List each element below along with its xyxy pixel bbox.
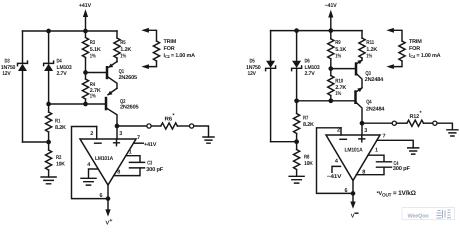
- wire node to R6: [117, 125, 147, 127]
- TRIM adjustment symbol right: [386, 28, 394, 33]
- capacitor C3 300 pF: [130, 162, 145, 168]
- wire node to R12: [362, 122, 392, 124]
- node junction bus/D4: [46, 29, 51, 34]
- ground right of R6: [203, 137, 214, 143]
- svg-text:3: 3: [119, 131, 122, 137]
- pin 3 lead: [361, 123, 363, 135]
- diode D5 zener: [266, 61, 276, 71]
- node junction R9/R10/Q3 base: [328, 66, 333, 71]
- svg-text:R10: R10: [335, 79, 343, 85]
- ground at pin 7: [408, 148, 419, 154]
- svg-text:1N750: 1N750: [246, 65, 261, 71]
- svg-text:R8: R8: [304, 155, 309, 161]
- pin 2 lead: [340, 128, 342, 135]
- wire terminal to ground: [194, 126, 209, 137]
- node junction D4/R1: [46, 102, 51, 107]
- pin 7 lead to ground: [377, 140, 413, 148]
- wire output arrow to V-: [352, 193, 354, 202]
- resistor R5: [116, 31, 118, 38]
- svg-text:D5: D5: [250, 58, 255, 64]
- svg-text:R6: R6: [165, 117, 173, 123]
- svg-text:2.7V: 2.7V: [305, 71, 316, 77]
- wire top supply bus: [23, 30, 118, 32]
- svg-text:1%: 1%: [120, 54, 126, 60]
- svg-text:+41V: +41V: [144, 142, 157, 148]
- svg-text:V: V: [351, 213, 355, 219]
- svg-text:FOR: FOR: [164, 46, 175, 52]
- svg-text:TRIM: TRIM: [164, 39, 177, 45]
- ground at pin 4: [81, 178, 96, 185]
- svg-text:2: 2: [90, 131, 93, 137]
- resistor R11: [361, 31, 363, 38]
- wire D4 bottom lead: [48, 71, 50, 104]
- svg-text:2.7V: 2.7V: [57, 71, 68, 77]
- svg-text:R3: R3: [90, 40, 95, 46]
- node junction bus/R9: [328, 28, 333, 33]
- ground below R2: [41, 177, 56, 184]
- pin 3 lead: [116, 126, 118, 139]
- pin 7 lead to +41V: [134, 142, 144, 144]
- node junction bus/D6: [294, 28, 299, 33]
- svg-text:D4: D4: [57, 58, 63, 64]
- diode D6 zener LM103: [292, 61, 302, 71]
- node junction R7/R8/D5: [294, 139, 299, 144]
- svg-text:8.2K: 8.2K: [55, 125, 66, 131]
- watermark box: [402, 208, 455, 220]
- transistor Q2 2N2605: [108, 88, 117, 94]
- node open terminal right of R12: [433, 121, 437, 125]
- svg-text:6: 6: [100, 193, 103, 199]
- svg-text:R1: R1: [55, 118, 60, 124]
- op-amp U2 LM101A: [326, 135, 380, 181]
- pin 2 lead: [96, 127, 98, 140]
- node junction R4 bottom: [83, 102, 88, 107]
- wire D5 to R7/R8 junction: [271, 141, 297, 143]
- wire D3 bottom lead down to R1/R2 junction row: [22, 71, 24, 142]
- wire D3 to R1/R2 junction: [23, 141, 49, 143]
- wire D5 bottom lead down to R7/R8 junction row: [270, 68, 272, 141]
- svg-text:5.1K: 5.1K: [90, 47, 101, 53]
- svg-text:6: 6: [345, 188, 348, 194]
- op-amp plus sign pin3: [359, 136, 365, 142]
- svg-text:2N2484: 2N2484: [365, 77, 385, 83]
- svg-text:2N2605: 2N2605: [120, 104, 139, 110]
- wire feedback loop output to pin 2: [72, 127, 109, 199]
- svg-text:3: 3: [364, 128, 367, 134]
- node junction R3/R4/Q1 base: [83, 70, 88, 75]
- node junction output/feedback: [351, 191, 356, 196]
- svg-text:−41V: −41V: [325, 3, 338, 9]
- svg-text:WeeQoo: WeeQoo: [408, 213, 430, 219]
- svg-text:2N2484: 2N2484: [366, 107, 386, 113]
- diode D4 zener LM103: [44, 61, 54, 71]
- resistor R10: [330, 69, 332, 76]
- svg-text:Q4: Q4: [366, 100, 372, 106]
- svg-text:C3: C3: [147, 160, 152, 166]
- op-amp plus sign pin3: [114, 140, 120, 146]
- svg-text:LM101A: LM101A: [345, 148, 363, 154]
- svg-text:D3: D3: [5, 58, 10, 64]
- svg-text:1%: 1%: [90, 54, 96, 60]
- node junction D6/R7: [294, 98, 299, 103]
- transistor Q4 2N2484: [356, 88, 363, 93]
- wire D4 top lead: [48, 31, 50, 63]
- TRIM adjustment symbol left: [141, 28, 149, 33]
- op-amp minus sign pin2: [340, 138, 346, 140]
- resistor R4: [85, 73, 87, 80]
- wire feedback loop output to pin 2: [317, 128, 354, 194]
- svg-text:IC2 = 1.00 mA: IC2 = 1.00 mA: [164, 53, 196, 59]
- svg-text:1.2K: 1.2K: [120, 47, 131, 53]
- transistor Q3 2N2484: [331, 68, 355, 70]
- svg-text:8: 8: [117, 170, 120, 176]
- capacitor C4 300 pF: [377, 162, 392, 167]
- pin 6 output lead: [107, 185, 109, 199]
- pin 1 lead to C4: [368, 155, 384, 161]
- resistor R6*: [161, 123, 178, 129]
- svg-text:LM101A: LM101A: [95, 156, 113, 162]
- svg-text:R9: R9: [335, 40, 340, 46]
- transistor Q1 2N2605: [86, 72, 106, 74]
- node open terminal right of R6: [190, 124, 194, 128]
- wire terminal to R6: [151, 125, 161, 127]
- svg-text:R5: R5: [120, 40, 125, 46]
- svg-text:1%: 1%: [90, 94, 96, 100]
- resistor R7: [296, 101, 298, 114]
- svg-text:10K: 10K: [304, 161, 313, 167]
- wire output arrow to V+: [107, 199, 109, 210]
- node junction R10 bottom: [328, 98, 333, 103]
- pin 6 output lead: [352, 181, 354, 194]
- svg-text:R11: R11: [366, 40, 374, 46]
- svg-text:D6: D6: [305, 58, 310, 64]
- watermark CJK glyphs: [437, 210, 452, 218]
- svg-text:1: 1: [375, 148, 378, 154]
- svg-text:1N750: 1N750: [1, 65, 16, 71]
- node junction R1/R2/D3: [46, 140, 51, 145]
- pin 1 lead to C3: [126, 156, 140, 162]
- wire +41V supply arrow: [83, 9, 88, 17]
- svg-text:10K: 10K: [56, 162, 65, 168]
- node summing junction Q2 collector: [115, 124, 120, 129]
- svg-text:5.1K: 5.1K: [335, 47, 346, 53]
- svg-text:8.2K: 8.2K: [303, 122, 314, 128]
- pin 4 lead to ground: [89, 169, 98, 178]
- wire D3 top lead: [22, 31, 24, 63]
- node open terminal left of R12: [392, 121, 396, 125]
- svg-text:Q3: Q3: [365, 71, 370, 77]
- op-amp minus sign pin2: [95, 142, 101, 144]
- svg-text:+: +: [109, 218, 112, 224]
- resistor R8: [296, 142, 298, 150]
- svg-text:12V: 12V: [248, 71, 257, 77]
- svg-text:+41V: +41V: [79, 3, 92, 9]
- svg-text:IC4 = 1.00 mA: IC4 = 1.00 mA: [409, 53, 441, 59]
- node open terminal left of R6: [147, 124, 151, 128]
- svg-text:300 pF: 300 pF: [146, 167, 164, 173]
- svg-text:7: 7: [383, 134, 386, 140]
- op-amp U1 LM101A: [80, 139, 136, 185]
- wire terminal to ground: [437, 123, 452, 130]
- svg-text:2N2605: 2N2605: [119, 75, 138, 81]
- svg-text:300 pF: 300 pF: [393, 166, 411, 172]
- wire D5 top lead: [270, 31, 272, 61]
- svg-text:R2: R2: [56, 155, 61, 161]
- wire D6 top lead: [296, 31, 298, 61]
- svg-text:LM103: LM103: [57, 65, 72, 71]
- svg-text:1%: 1%: [335, 91, 341, 97]
- resistor R1: [48, 104, 50, 112]
- svg-text:1.2K: 1.2K: [366, 47, 377, 53]
- wire D6 bottom lead: [296, 68, 298, 101]
- svg-text:7: 7: [137, 135, 140, 141]
- resistor R12*: [407, 120, 424, 126]
- pin 4 lead to -41V: [332, 166, 341, 172]
- ground below R8: [289, 176, 304, 183]
- svg-text:−41V: −41V: [327, 174, 342, 180]
- wire terminal to R12: [397, 122, 407, 124]
- resistor R3: [85, 31, 87, 38]
- svg-text:R7: R7: [303, 115, 308, 121]
- node summing junction Q4 collector: [360, 121, 365, 126]
- ground right of R12: [447, 130, 458, 136]
- svg-text:1%: 1%: [335, 54, 341, 60]
- diode D3 zener: [18, 61, 28, 71]
- svg-text:1%: 1%: [366, 54, 372, 60]
- wire -41V supply arrow: [328, 10, 333, 18]
- svg-text:1: 1: [129, 149, 132, 155]
- svg-text:R12: R12: [410, 114, 420, 120]
- svg-text:TRIM: TRIM: [409, 39, 422, 45]
- svg-text:FOR: FOR: [409, 46, 420, 52]
- svg-text:8: 8: [362, 169, 365, 175]
- node junction output/feedback: [106, 196, 111, 201]
- resistor R2: [48, 142, 50, 150]
- svg-text:12V: 12V: [2, 71, 11, 77]
- svg-text:LM103: LM103: [305, 65, 320, 71]
- node junction bus/R3: [83, 29, 88, 34]
- resistor R9: [330, 31, 332, 39]
- wire top supply bus right: [271, 30, 362, 32]
